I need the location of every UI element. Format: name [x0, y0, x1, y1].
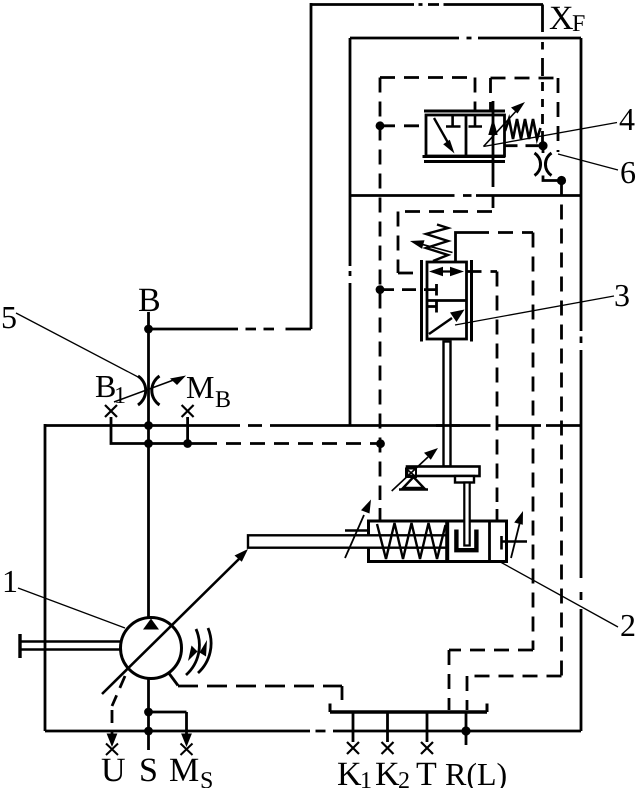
port B1 measuring X mark: [105, 405, 117, 417]
port K1 X mark: [347, 742, 359, 754]
pump variable arrow: [102, 557, 241, 694]
wire dashed box2 right drop: [557, 78, 560, 152]
node B junction dot: [144, 325, 153, 334]
wire lower box bottom rail: [45, 730, 581, 733]
wire port B vertical line: [147, 312, 150, 618]
valve V1 (3) bottom cell blocked port: [427, 301, 437, 313]
port U down arrow: [107, 734, 118, 748]
wire throttle6 bottom elbow: [543, 176, 562, 181]
valve V1 (3) top cell double arrow: [434, 270, 459, 272]
valve V1 (3) right rail: [470, 260, 473, 342]
valve V1 (3) bottom cell flow arrow: [429, 318, 452, 334]
piston cup: [456, 530, 476, 551]
valve U1 (4) divider: [465, 115, 468, 156]
wire second box left vertical: [349, 38, 352, 196]
pump drive shaft: [19, 642, 121, 650]
cylinder left pilot arrow: [345, 515, 364, 558]
wire K2 stub: [386, 712, 389, 742]
wire M_S branch: [149, 712, 187, 738]
pump shaft end cap: [18, 634, 21, 658]
lever bar: [407, 467, 480, 477]
svg-text:S: S: [139, 752, 158, 788]
wire second box bottom: [349, 194, 581, 197]
node junction dot throttle6 out: [557, 176, 566, 185]
wire pump case drain start: [168, 672, 178, 686]
wire spring chamber drain dashed: [474, 231, 533, 234]
wire valve4 right pressure pilot dashed: [505, 144, 544, 147]
svg-text:U: U: [101, 752, 126, 788]
valve V1 (3) box: [427, 262, 467, 339]
wire valve3 spring chamber drain solid elbow: [456, 233, 475, 263]
wire pilot drop to valve4 top: [474, 78, 477, 112]
throttle 5 orifice arcs at B1/MB: [138, 376, 146, 405]
wire inner dashed box left: [397, 212, 400, 274]
valve U1 (4) lower rails: [423, 155, 506, 158]
wire center line from second box to lower box: [349, 196, 352, 426]
rod from valve3 to lever: [444, 342, 451, 467]
valve U1 (4) left cell flow arrow: [434, 118, 451, 148]
cylinder right pilot arrow: [511, 522, 520, 558]
wire inner dashed box top: [398, 210, 492, 213]
wire lower box top rail: [45, 424, 581, 427]
valve V1 (3) left rail: [420, 260, 423, 342]
spring of valve 3: [426, 225, 448, 262]
pump rotation arc outer: [198, 628, 211, 673]
wire valve4 output drop dashed: [492, 174, 495, 212]
wire dashed box2 top: [491, 77, 559, 80]
wire main pilot dashed vertical left: [379, 78, 382, 501]
spring of valve 4: [505, 119, 541, 139]
wire valve3 out to cylinder dashed: [467, 272, 498, 503]
node junction dot XF spring: [538, 141, 547, 150]
node junction dot B rail top: [144, 421, 153, 430]
lever pivot base line: [399, 488, 428, 490]
svg-text:X: X: [549, 0, 574, 37]
pump flow triangle: [143, 619, 159, 630]
wire dashed box top (pilot): [380, 76, 475, 79]
wire valve3 left port dashed from dot: [380, 288, 427, 291]
svg-text:5: 5: [1, 299, 17, 335]
node junction dot B rail lower: [144, 439, 153, 448]
cylinder 2 box: [369, 521, 507, 562]
spring 3 adjust arrow: [420, 244, 453, 253]
node junction dot S at rail: [144, 727, 153, 736]
port M_S x mark: [181, 744, 193, 756]
lever adjust arrow: [392, 457, 428, 491]
svg-text:K: K: [337, 756, 362, 788]
wire inner dashed box elbow to valve3: [398, 272, 422, 275]
wire throttle6 top stub: [542, 146, 545, 153]
node junction dot M_S branch: [144, 708, 153, 717]
port MB measuring X mark: [182, 405, 194, 417]
svg-text:B: B: [215, 387, 231, 413]
valve U1 (4) right cell blocked port T: [469, 115, 483, 127]
spring 4 adjust arrow: [484, 109, 519, 147]
svg-text:K: K: [375, 756, 400, 788]
node junction dot valve3 left port: [376, 285, 385, 294]
svg-text:T: T: [416, 756, 437, 788]
wire K1 stub: [352, 712, 355, 742]
port T X mark: [421, 742, 433, 754]
valve U1 (4) upper rail: [424, 110, 505, 113]
wire pump outlet below circle: [147, 678, 150, 751]
svg-text:2: 2: [620, 607, 636, 643]
pump rotation arc inner: [186, 629, 199, 675]
wire X_F pilot vertical: [541, 5, 544, 146]
wire U port dashed drain: [112, 676, 125, 738]
svg-text:S: S: [200, 768, 213, 788]
wire dashed box2 left drop to valve4: [489, 78, 492, 112]
wire drain elbow to tank manifold: [449, 650, 533, 710]
wire enclosure left vertical: [310, 3, 313, 329]
wire B1 stub: [111, 417, 202, 444]
wire pilot line from B1 to valve network (dashed): [202, 442, 381, 445]
valve V1 (3) top cell blocked port: [427, 284, 437, 296]
wire enclosure top line: [311, 3, 543, 6]
wire R(L) stub: [465, 712, 468, 745]
throttle 6 orifice arcs: [535, 153, 541, 176]
valve U1 (4) box: [426, 115, 505, 156]
wire drain dashed vertical mid: [532, 233, 535, 651]
valve U1 (4) left cell blocked port T: [446, 115, 461, 127]
svg-text:3: 3: [614, 277, 630, 313]
svg-text:2: 2: [398, 768, 410, 788]
valve U1 (4) right cell up arrow line: [492, 101, 495, 174]
wire lower box left vertical: [44, 424, 47, 731]
wire right main vertical: [580, 38, 583, 731]
piston wall: [445, 521, 449, 562]
node junction dot pilot tee: [376, 439, 385, 448]
spring of cylinder 2: [377, 523, 446, 559]
wire enclosure lower horizontal to B line: [149, 328, 312, 331]
port M_S down arrow: [181, 734, 192, 748]
cylinder left pilot line: [345, 529, 369, 532]
svg-text:R(L): R(L): [445, 756, 507, 788]
wire lower box top rail over rod: [436, 424, 460, 427]
port K2 X mark: [382, 742, 394, 754]
svg-text:M: M: [186, 369, 214, 405]
wire case drain drop to manifold: [341, 686, 344, 706]
tank manifold bar: [330, 710, 487, 714]
svg-text:1: 1: [2, 563, 18, 599]
svg-text:F: F: [572, 11, 585, 37]
wire drain elbow to R(L): [467, 676, 562, 710]
cylinder right port T bar: [502, 536, 528, 550]
svg-text:M: M: [169, 752, 199, 788]
manifold right hook: [486, 704, 489, 713]
port U x mark: [106, 744, 118, 756]
svg-text:4: 4: [619, 101, 635, 137]
svg-text:1: 1: [360, 768, 372, 788]
wire case drain dashed horizontal: [178, 685, 342, 688]
node junction dot MB on pilot rail: [183, 439, 192, 448]
wire valve4 left port line dashed: [380, 124, 426, 127]
lever pivot triangle: [403, 477, 424, 488]
wire second box top: [350, 37, 581, 40]
wire drain dashed vertical from throttle6: [560, 181, 563, 677]
node junction dot R(L): [461, 726, 470, 735]
cylinder divider: [488, 521, 491, 562]
wire T stub: [426, 712, 429, 742]
piston rod to swash lever: [248, 535, 447, 547]
wire MB stub: [186, 417, 189, 444]
lever pivot pin box: [406, 469, 416, 478]
valve V1 (3) divider: [427, 299, 467, 302]
lever lower block: [455, 476, 474, 483]
manifold left hook: [329, 704, 332, 713]
node junction dot valve4 left port: [376, 121, 385, 130]
svg-text:6: 6: [620, 154, 636, 190]
rod from lever to piston: [464, 483, 469, 546]
throttle 5 adjust arrow: [114, 378, 179, 402]
pump 1 circle: [121, 618, 182, 679]
